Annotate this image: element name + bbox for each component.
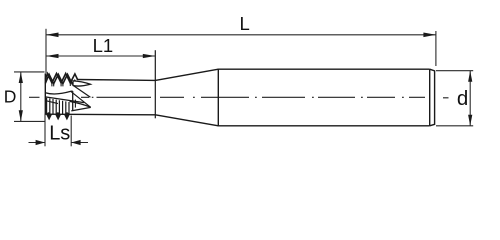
svg-text:L: L — [240, 13, 250, 34]
svg-text:L1: L1 — [93, 35, 114, 56]
svg-text:D: D — [4, 87, 17, 107]
svg-text:d: d — [457, 87, 468, 110]
svg-text:Ls: Ls — [49, 123, 70, 145]
